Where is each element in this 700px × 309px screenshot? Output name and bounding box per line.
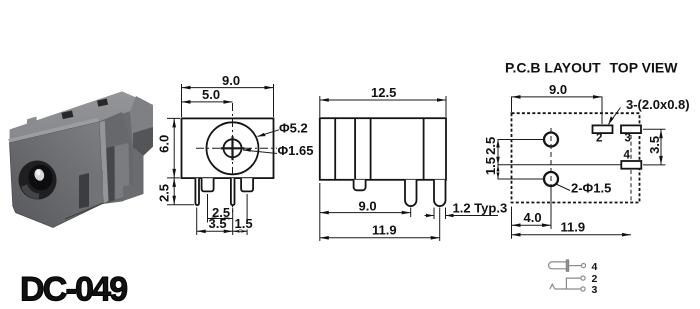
svg-text:2-Φ1.5: 2-Φ1.5: [571, 181, 611, 196]
photo side lug: [115, 143, 130, 199]
label 2-dia1.5 leader: [556, 184, 570, 191]
side view round pin 1: [405, 180, 417, 206]
schematic barrel sleeve: [549, 262, 569, 269]
schematic wire pin4: [569, 265, 581, 267]
photo plate top edge strip: [8, 118, 100, 143]
svg-text:4.0: 4.0: [524, 210, 542, 225]
side view internal line 1: [334, 118, 336, 180]
dim 9.0 extension lines: [182, 84, 274, 117]
dim 3.5 text: [208, 219, 228, 230]
schematic wire pin2: [566, 278, 581, 289]
pad 3: [621, 125, 641, 133]
schematic terminal 4: [581, 264, 585, 268]
dim 1.2 arrows and line: [425, 215, 499, 217]
pad 4: [621, 161, 641, 169]
photo rear block: [130, 96, 153, 156]
side view internal line 2: [354, 118, 356, 180]
side view body outline: [320, 118, 446, 180]
horizontal centerline: [196, 147, 277, 149]
photo bottom middle leg face: [89, 170, 103, 207]
photo top hole 1: [61, 110, 73, 119]
dim 9.0 line: [182, 87, 274, 89]
svg-text:3.5: 3.5: [647, 136, 662, 154]
svg-text:2: 2: [596, 133, 602, 145]
svg-text:5.0: 5.0: [202, 87, 220, 102]
svg-text:1.2 Typ.3: 1.2 Typ.3: [453, 201, 508, 216]
svg-text:6.0: 6.0: [157, 135, 172, 153]
tab pin right: [241, 178, 253, 191]
schematic terminal 2: [581, 276, 585, 280]
mid extension line: [498, 164, 622, 166]
photo center pin highlight: [36, 169, 42, 175]
PHOTO PLACEHOLDER: [8, 92, 153, 228]
svg-text:4: 4: [592, 261, 598, 273]
side view internal line 4: [423, 118, 425, 180]
dim 2.5 1.5 vertical line: [497, 140, 499, 180]
dim 3.5 1.5 line: [197, 230, 247, 232]
dim 1.5 text: [234, 219, 253, 230]
dim 9.0 side extension: [410, 208, 412, 218]
PCB VIEW GROUP: [483, 60, 689, 239]
dim 11.9 pcb line: [512, 234, 632, 236]
SIDE VIEW GROUP: [320, 85, 507, 241]
center pin crosshair: [221, 136, 245, 160]
svg-text:3.5: 3.5: [209, 216, 227, 231]
svg-text:3: 3: [625, 133, 631, 145]
front view barrel circle 5.2: [207, 122, 259, 174]
dim 2.5 left extension tick: [167, 204, 194, 206]
front view body outline: [182, 118, 274, 178]
pcb dashed outline: [512, 113, 640, 202]
pad 2: [593, 125, 613, 133]
vertical centerline: [232, 103, 234, 213]
label dia 1.65 leader: [243, 150, 277, 154]
dim 2.5 bottom line: [208, 218, 233, 220]
svg-text:4: 4: [624, 150, 631, 162]
svg-text:11.9: 11.9: [561, 220, 586, 235]
dim 6.0 extension ticks: [167, 118, 180, 177]
side left extension line: [319, 183, 321, 241]
photo inner ring: [26, 162, 55, 192]
svg-text:DC-049: DC-049: [20, 271, 127, 309]
FRONT VIEW GROUP: [157, 73, 314, 235]
holes vertical centerline: [550, 128, 552, 193]
photo right column: [100, 112, 134, 203]
dim 2.5 bottom extensions: [208, 194, 233, 235]
svg-text:TOP VIEW: TOP VIEW: [610, 60, 679, 76]
photo bottom middle leg dark: [79, 173, 89, 209]
dim 9.0 pcb line: [512, 96, 603, 98]
dim 9.0 side line: [320, 212, 411, 214]
side view internal line 3: [370, 118, 372, 180]
photo bottom shadow line: [65, 203, 104, 219]
svg-text:P.C.B LAYOUT: P.C.B LAYOUT: [505, 60, 601, 76]
schematic wire pin3: [555, 288, 581, 290]
photo front plate: [10, 122, 104, 228]
svg-text:11.9: 11.9: [372, 223, 397, 238]
dim 2.5 bottom text: [211, 208, 232, 218]
photo side slot dark: [107, 146, 115, 203]
dim 4.0 extension: [512, 189, 552, 239]
circle2 extension line: [498, 178, 545, 180]
photo bottom right foot: [123, 182, 144, 202]
svg-text:2.5: 2.5: [157, 184, 172, 202]
photo recess crescent: [21, 184, 40, 199]
svg-text:Φ1.65: Φ1.65: [278, 143, 314, 158]
dim 9.0 pcb extensions: [512, 97, 603, 125]
svg-text:Φ5.2: Φ5.2: [279, 120, 308, 135]
dim 3.5 line: [660, 129, 662, 165]
dim 11.9 line: [320, 237, 440, 239]
dim 5.0 line: [182, 101, 233, 103]
dim 4.0 line: [512, 224, 552, 226]
photo plate right side strip: [100, 121, 109, 203]
photo center pin: [33, 168, 45, 182]
svg-text:2.5: 2.5: [483, 137, 498, 155]
svg-text:12.5: 12.5: [371, 85, 396, 100]
dim 6.0 line: [173, 118, 175, 177]
schematic terminal 3: [581, 287, 585, 291]
dim 3.5 extensions: [643, 129, 666, 165]
side view tab pin: [354, 180, 366, 191]
svg-text:9.0: 9.0: [549, 82, 567, 97]
label 3-(2.0x0.8) leader: [609, 108, 621, 125]
svg-text:1.5: 1.5: [483, 157, 498, 175]
circle1 extension line: [498, 139, 545, 141]
front view center pin circle 1.65: [224, 139, 242, 157]
dim 1.2 extensions: [434, 208, 446, 220]
dim 3.5 1.5 extensions: [197, 194, 247, 235]
dim 12.5 extension lines: [320, 96, 446, 117]
photo top hole 2: [97, 99, 108, 107]
photo rear block dark band: [133, 127, 153, 156]
svg-text:3: 3: [592, 284, 598, 296]
svg-text:9.0: 9.0: [359, 199, 377, 214]
dim 12.5 line: [320, 99, 446, 101]
dim 11.9 extension: [439, 208, 441, 242]
photo plate top tab: [27, 117, 37, 128]
pcb hole circle 1: [544, 133, 558, 147]
label dia 5.2 leader: [258, 130, 280, 137]
svg-text:9.0: 9.0: [222, 73, 240, 88]
pcb hole circle 2: [544, 172, 558, 186]
pads vertical centerline: [630, 135, 632, 203]
side view round pin 2: [434, 180, 446, 206]
photo body silhouette: [10, 92, 154, 228]
photo top face: [10, 92, 151, 145]
SCHEMATIC GROUP: [549, 260, 598, 296]
svg-text:3-(2.0x0.8): 3-(2.0x0.8): [626, 97, 690, 112]
thin pin left front: [195, 178, 199, 205]
photo barrel recess: [15, 157, 60, 203]
svg-text:1.5: 1.5: [235, 216, 253, 231]
schematic switch contact: [550, 284, 555, 289]
thin pin center: [231, 178, 235, 205]
tab pin left: [202, 178, 214, 191]
dim 2.5 left line: [173, 178, 175, 205]
schematic tip contact bar: [566, 260, 569, 272]
